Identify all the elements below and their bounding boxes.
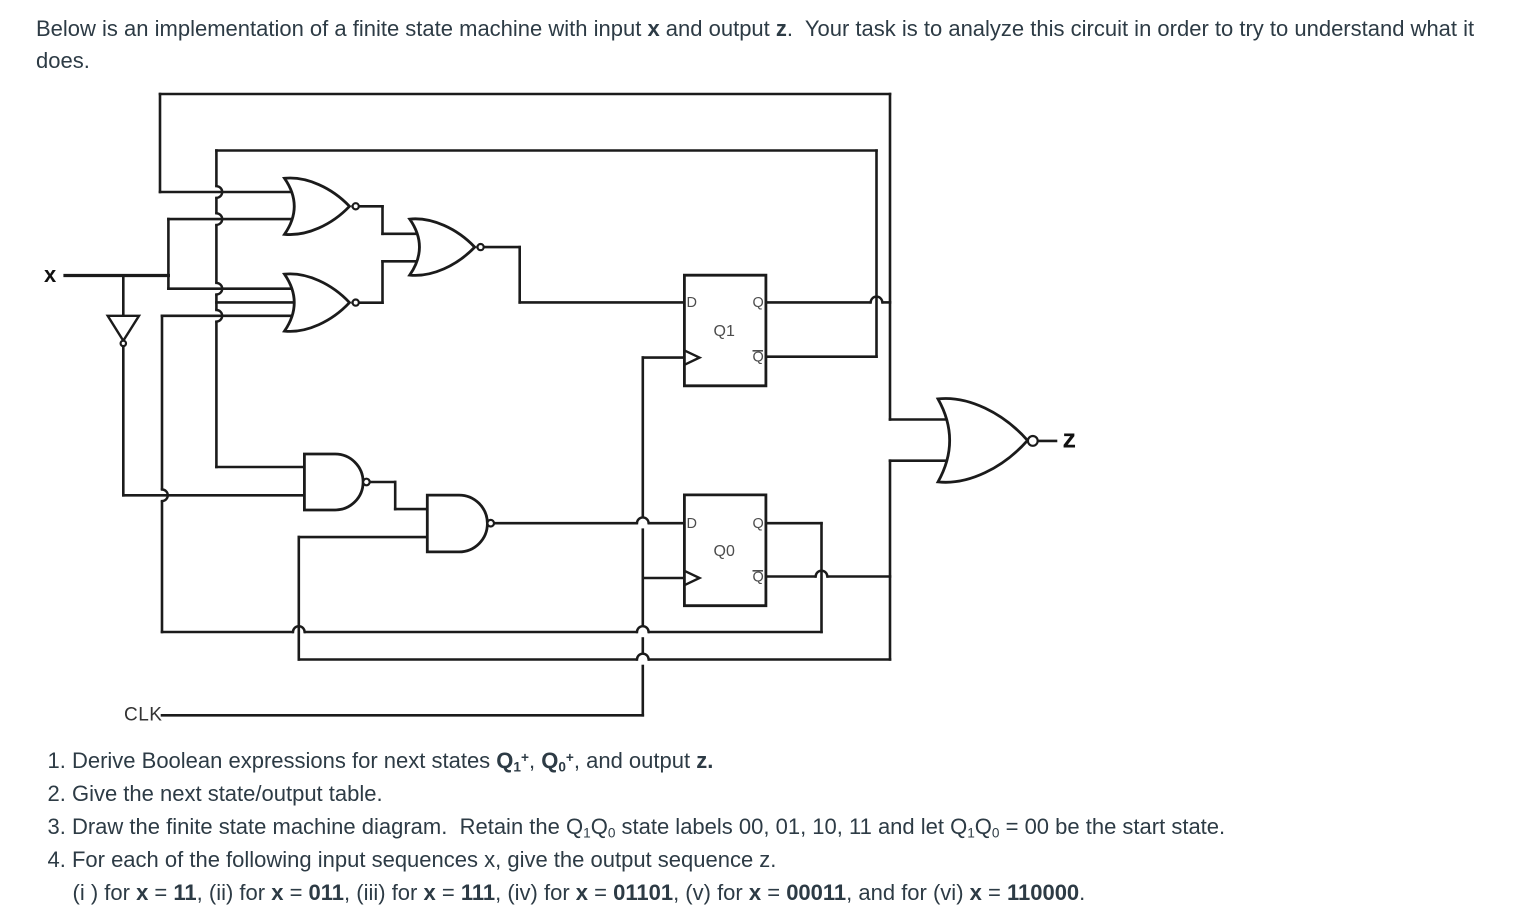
svg-text:CLK: CLK (124, 705, 162, 726)
svg-text:Q: Q (753, 350, 764, 366)
svg-text:Q: Q (753, 570, 764, 586)
svg-text:x: x (44, 262, 57, 287)
svg-text:Q1: Q1 (714, 323, 735, 340)
svg-text:Q: Q (753, 295, 764, 311)
svg-text:z: z (1063, 424, 1077, 454)
svg-text:Q0: Q0 (714, 543, 735, 560)
svg-text:D: D (687, 295, 697, 311)
svg-text:Q: Q (753, 516, 764, 532)
svg-text:D: D (687, 516, 697, 532)
